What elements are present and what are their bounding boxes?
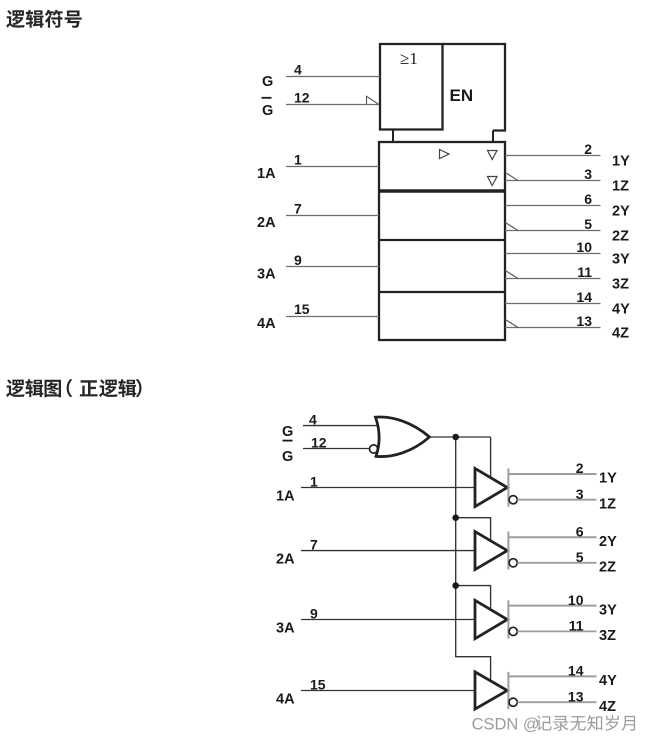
wire output 3Z [517, 630, 596, 632]
output bar of U2 [507, 532, 509, 570]
svg-text:CSDN @: CSDN @ [472, 715, 540, 733]
wire pin 4 to OR gate [303, 425, 380, 427]
svg-text:3: 3 [576, 486, 584, 502]
svg-text:15: 15 [294, 301, 310, 317]
svg-text:≥1: ≥1 [400, 49, 418, 68]
three-state symbol 2 (down triangle) [488, 177, 498, 186]
svg-text:7: 7 [294, 201, 302, 217]
svg-text:4Z: 4Z [612, 326, 629, 342]
junction node 3 [452, 582, 459, 589]
wire output 2Y [508, 536, 596, 538]
svg-text:11: 11 [569, 618, 584, 634]
svg-text:14: 14 [568, 663, 584, 679]
wire output 3Z [505, 278, 601, 280]
wire output 3Y [508, 605, 596, 607]
wire output 4Y [505, 303, 601, 305]
svg-text:2Y: 2Y [599, 534, 617, 550]
wire input A at y=316.5 [286, 316, 379, 318]
OR gate U5 [376, 417, 430, 457]
svg-text:G: G [282, 424, 293, 440]
three-state symbol 1 (down triangle) [488, 151, 498, 160]
svg-text:5: 5 [576, 549, 584, 565]
svg-text:2: 2 [576, 460, 584, 476]
block: driver array outline [379, 142, 505, 340]
output bar of U1 [507, 468, 509, 506]
svg-text:4Y: 4Y [599, 673, 617, 689]
svg-text:3Z: 3Z [612, 277, 629, 293]
svg-text:7: 7 [310, 537, 318, 553]
svg-text:1A: 1A [276, 489, 295, 505]
svg-text:9: 9 [310, 606, 318, 622]
enable net vertical [456, 437, 491, 682]
wire input A at y=166.5 [286, 166, 379, 168]
wire output 1Y [508, 473, 596, 475]
output bar of U4 [507, 672, 509, 709]
output bar of U3 [507, 600, 509, 638]
svg-text:12: 12 [311, 435, 327, 451]
svg-text:13: 13 [568, 688, 584, 704]
svg-text:3Y: 3Y [612, 252, 630, 268]
overbar of G [262, 97, 272, 99]
svg-text:G: G [282, 449, 293, 465]
svg-text:9: 9 [294, 252, 302, 268]
svg-text:4Z: 4Z [599, 699, 616, 715]
buffer U1 [475, 468, 507, 506]
polarity indicator on 1Z [505, 172, 518, 180]
svg-text:4A: 4A [276, 692, 295, 708]
polarity indicator on pin 12 [367, 96, 380, 104]
inverting bubble of U3 [509, 627, 517, 635]
svg-text:3: 3 [584, 166, 592, 182]
svg-text:3Z: 3Z [599, 628, 616, 644]
wire pin 12 to inverter bubble [303, 448, 370, 450]
wire input 3A [301, 619, 475, 621]
wire input pin 4 (G) [286, 76, 380, 78]
wire input A at y=266.5 [286, 266, 379, 268]
enable branch to U3 [456, 586, 491, 611]
svg-text:10: 10 [576, 239, 592, 255]
polarity indicator on 2Z [505, 222, 518, 230]
inverting bubble of U4 [509, 698, 517, 706]
wire output 3Y [505, 253, 601, 255]
wire input 4A [301, 690, 475, 692]
wire output 4Y [508, 675, 596, 677]
svg-text:1Z: 1Z [599, 496, 616, 512]
svg-text:1Y: 1Y [612, 154, 630, 170]
divider 2 [379, 239, 505, 241]
enable branch to U2 [456, 518, 491, 542]
svg-text:2A: 2A [276, 552, 295, 568]
wire output 1Z [517, 499, 596, 501]
svg-text:5: 5 [584, 216, 592, 232]
svg-text:4: 4 [294, 62, 302, 78]
junction node 2 [452, 514, 459, 521]
wire OR output [430, 436, 491, 438]
buffer U3 [475, 600, 507, 638]
divider 1 (thick) [379, 189, 505, 192]
svg-text:1A: 1A [257, 166, 276, 182]
svg-text:3A: 3A [257, 267, 276, 283]
block: OR sub-block (≥1) of common control [380, 44, 443, 130]
svg-text:G: G [262, 103, 273, 119]
title: 逻辑符号 (logic symbol) [6, 10, 82, 28]
svg-text:6: 6 [584, 191, 592, 207]
wire input pin 12 (G-bar) [286, 104, 379, 106]
amplification symbol (right triangle) [440, 150, 450, 159]
title: 逻辑图（正逻辑） (logic diagram, positive logic) [6, 379, 141, 397]
svg-text:2Z: 2Z [612, 229, 629, 245]
buffer U2 [475, 532, 507, 570]
svg-text:EN: EN [450, 86, 474, 105]
svg-text:1Z: 1Z [612, 179, 629, 195]
inverting bubble of U1 [509, 496, 517, 504]
neck left connecting control block to array [392, 130, 394, 143]
svg-text:G: G [262, 74, 273, 90]
enable branch to U1 [490, 437, 492, 479]
svg-text:2A: 2A [257, 215, 276, 231]
svg-text:6: 6 [576, 523, 584, 539]
svg-text:2Y: 2Y [612, 204, 630, 220]
svg-text:1: 1 [294, 152, 302, 168]
block: EN sub-block of common control [443, 44, 506, 131]
svg-text:10: 10 [568, 592, 584, 608]
inverter bubble on G-bar input [370, 445, 378, 453]
svg-text:4Y: 4Y [612, 302, 630, 318]
svg-text:3A: 3A [276, 621, 295, 637]
svg-text:15: 15 [310, 677, 326, 693]
wire output 1Z [505, 180, 601, 182]
svg-text:11: 11 [577, 264, 592, 280]
svg-text:1Y: 1Y [599, 471, 617, 487]
wire output 1Y [505, 155, 601, 157]
wire output 4Z [517, 701, 596, 703]
wire output 2Z [505, 230, 601, 232]
wire input 1A [301, 487, 475, 489]
wire output 2Z [517, 562, 596, 564]
buffer U4 [475, 672, 507, 709]
svg-text:2Z: 2Z [599, 560, 616, 576]
inverting bubble of U2 [509, 559, 517, 567]
neck right connecting control block to array [492, 131, 494, 143]
svg-text:14: 14 [576, 289, 592, 305]
watermark 记录无知岁月 [536, 715, 635, 731]
wire output 2Y [505, 205, 601, 207]
polarity indicator on 4Z [505, 319, 518, 327]
wire input 2A [301, 550, 475, 552]
overbar of G (bottom) [283, 440, 293, 442]
svg-text:2: 2 [584, 141, 592, 157]
wire input A at y=215.5 [286, 215, 379, 217]
wire output 4Z [505, 327, 601, 329]
svg-text:3Y: 3Y [599, 602, 617, 618]
svg-text:4: 4 [309, 412, 317, 428]
svg-text:1: 1 [310, 474, 318, 490]
junction node 1 [452, 434, 459, 441]
svg-text:12: 12 [294, 90, 310, 106]
divider 3 [379, 291, 505, 293]
svg-text:13: 13 [576, 313, 592, 329]
polarity indicator on 3Z [505, 270, 518, 278]
svg-text:4A: 4A [257, 316, 276, 332]
